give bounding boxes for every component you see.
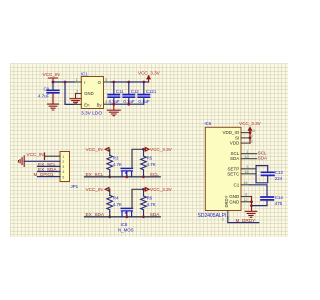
transistor Q1 N-MOS	[121, 168, 132, 176]
wire JP1 pin1	[45, 155, 60, 157]
capacitor C14	[261, 195, 283, 206]
svg-text:C14: C14	[275, 195, 284, 200]
svg-text:SDA: SDA	[258, 156, 267, 161]
svg-text:4: 4	[62, 170, 64, 174]
svg-text:4.7uF: 4.7uF	[38, 94, 50, 99]
svg-text:R6: R6	[147, 195, 153, 200]
resistor R5	[141, 149, 156, 170]
wire GND rail	[251, 197, 253, 212]
RTC IC6 box	[198, 121, 242, 219]
svg-text:DRDY: DRDY	[224, 195, 229, 207]
pin 4 stub BYP	[104, 103, 111, 105]
junction at EN branch	[64, 81, 67, 84]
wire R5 to SCL line	[143, 171, 145, 177]
svg-text:SETC: SETC	[227, 171, 240, 176]
svg-text:SDA: SDA	[230, 156, 239, 161]
ground at LDO pin 2	[70, 94, 81, 104]
junction R5 bottom	[142, 175, 145, 178]
power port VCC_3.3V (SDA shifter)	[145, 187, 172, 192]
svg-text:1: 1	[62, 155, 64, 159]
ground under caps	[107, 104, 120, 116]
pin stub DRDY 3	[227, 211, 229, 218]
wire VCC_IN to R4	[108, 189, 110, 195]
svg-text:C1: C1	[234, 182, 240, 187]
svg-text:5: 5	[247, 165, 249, 169]
svg-text:16: 16	[244, 181, 248, 185]
power port VCC_3.3V (RTC)	[239, 121, 262, 131]
svg-text:VCC_3.3V: VCC_3.3V	[150, 147, 173, 152]
svg-text:VCC_IN: VCC_IN	[43, 72, 60, 77]
wire EX_SCL line	[85, 176, 161, 178]
svg-text:VDD_IO: VDD_IO	[223, 130, 240, 135]
svg-text:VCC_3.3V: VCC_3.3V	[150, 187, 173, 192]
junction caps gnd	[112, 103, 115, 106]
connector JP1 box	[60, 152, 79, 190]
pin 2 stub	[76, 93, 82, 95]
wire VCC_IN to R3	[108, 149, 110, 155]
junction SI	[249, 137, 252, 140]
svg-text:3.3V LDO: 3.3V LDO	[81, 111, 102, 117]
pin stub GND 9	[241, 196, 252, 198]
capacitor C13	[262, 170, 284, 181]
svg-text:C13: C13	[275, 170, 284, 175]
svg-text:R5: R5	[147, 155, 153, 160]
power port VCC_IN (SDA shifter)	[86, 187, 109, 192]
junction R6 bottom	[142, 215, 145, 218]
svg-text:4.7K: 4.7K	[147, 202, 156, 207]
svg-text:5: 5	[62, 175, 64, 179]
svg-text:15: 15	[245, 170, 249, 174]
svg-text:R4: R4	[113, 195, 119, 200]
svg-text:GND: GND	[229, 199, 240, 204]
junction C121 top	[142, 81, 145, 84]
svg-text:VCC_IN: VCC_IN	[27, 152, 44, 157]
pin stub VDD_IO 13	[241, 132, 250, 134]
pin stub SCL 1	[241, 153, 257, 155]
wire caps bottom rail	[111, 103, 144, 105]
svg-text:0.1uF: 0.1uF	[138, 99, 150, 104]
capacitor C121	[138, 82, 157, 104]
pin stub SDA 10	[241, 158, 257, 160]
wire EN branch	[65, 82, 74, 104]
svg-text:GND: GND	[229, 194, 240, 199]
wire 3.3V output rail	[111, 81, 148, 83]
junction C11 top	[112, 81, 115, 84]
svg-text:En: En	[84, 102, 90, 107]
junction GND12	[250, 200, 253, 203]
pin stub GND 12	[241, 201, 252, 203]
svg-text:VCC_3.3V: VCC_3.3V	[239, 121, 262, 126]
junction C12 top	[127, 81, 130, 84]
svg-text:C121: C121	[146, 89, 157, 94]
capacitor C12	[123, 82, 139, 104]
capacitor C11	[108, 82, 124, 104]
svg-text:VCC_IN: VCC_IN	[86, 187, 103, 192]
resistor R6	[141, 189, 156, 210]
pin 5 stub OUT	[104, 81, 112, 83]
pin stub SETP 5	[241, 168, 256, 170]
pin stub C1 16	[241, 184, 250, 186]
svg-text:IC8: IC8	[121, 222, 128, 227]
junction C12 bottom	[127, 103, 130, 106]
junction R4	[108, 215, 111, 218]
svg-text:3: 3	[222, 218, 224, 222]
junction MOSFET bulk sda	[125, 215, 128, 218]
svg-text:VCC_3.3V: VCC_3.3V	[138, 71, 161, 76]
svg-text:IC6: IC6	[205, 121, 212, 126]
svg-text:224: 224	[275, 176, 283, 181]
power port VCC_IN (SCL shifter)	[86, 147, 109, 152]
resistor R4	[107, 195, 122, 211]
svg-text:1: 1	[76, 78, 78, 82]
ground at RTC	[245, 211, 257, 217]
sheet background	[10, 64, 288, 238]
svg-text:4.7K: 4.7K	[113, 202, 122, 207]
svg-text:10: 10	[245, 155, 249, 159]
op regulator IC1 box	[81, 71, 104, 116]
svg-text:O: O	[98, 80, 102, 85]
svg-text:4: 4	[105, 100, 107, 104]
svg-text:2: 2	[76, 89, 78, 93]
wire JP1 pin4	[38, 171, 61, 173]
pin 3 stub EN	[74, 103, 81, 105]
power port VCC_3.3V (SCL shifter)	[145, 147, 172, 152]
svg-text:R3: R3	[113, 155, 119, 160]
junction at C9 tap	[52, 81, 55, 84]
svg-text:C9: C9	[44, 87, 50, 92]
wire C13 loop	[256, 166, 268, 183]
wire R3 to SCL line	[109, 171, 111, 177]
svg-text:VDD: VDD	[230, 141, 240, 146]
svg-text:SCL: SCL	[150, 172, 160, 177]
power port VCC_IN (top-left)	[43, 72, 60, 82]
svg-text:4.7K: 4.7K	[113, 162, 122, 167]
wire R4 to SDA line	[109, 211, 111, 217]
svg-text:3: 3	[62, 165, 64, 169]
svg-text:M_DRDY: M_DRDY	[236, 218, 257, 223]
wire JP1 pin5	[38, 176, 61, 178]
pin 1 stub	[74, 81, 81, 83]
svg-text:N_MOS: N_MOS	[118, 228, 134, 233]
svg-text:C12: C12	[131, 89, 140, 94]
junction R3	[108, 175, 111, 178]
wire VCC_IN to LDO pin 1	[53, 81, 74, 83]
junction R6 top	[142, 188, 145, 191]
wire JP1 pin2	[24, 160, 60, 162]
wire DRDY	[228, 217, 259, 223]
junction VDDIO	[249, 131, 252, 134]
ground under C9	[48, 104, 59, 110]
junction R5 top	[142, 148, 145, 151]
svg-text:2: 2	[62, 160, 64, 164]
svg-text:1: 1	[247, 150, 249, 154]
wire gate to 3.3V rail	[132, 149, 145, 168]
svg-text:475: 475	[275, 201, 283, 206]
power port VCC_IN (JP1 pin1)	[27, 152, 45, 160]
wire JP1 pin3	[38, 165, 61, 167]
svg-text:SDA: SDA	[150, 212, 161, 217]
wire VDD rail	[249, 130, 251, 143]
resistor R3	[107, 155, 122, 171]
wire R6 to SDA line	[143, 211, 145, 217]
svg-text:C11: C11	[116, 89, 124, 94]
power port VCC_3.3V (caps rail)	[138, 71, 161, 83]
svg-text:2: 2	[251, 139, 253, 143]
svg-text:IC1: IC1	[81, 71, 88, 76]
pin stub VDD 2	[241, 142, 250, 144]
svg-text:I: I	[84, 80, 85, 85]
junction MOSFET bulk	[125, 175, 128, 178]
transistor Q2 N-MOS	[118, 208, 134, 232]
wire gate to 3.3V rail sda	[132, 189, 145, 208]
svg-text:12: 12	[244, 198, 248, 202]
ground sideways (JP1 pin2)	[19, 156, 25, 167]
svg-text:JP1: JP1	[71, 184, 79, 189]
capacitor C9	[38, 82, 59, 104]
svg-text:VCC_IN: VCC_IN	[86, 147, 103, 152]
pin stub SETC 15	[241, 173, 256, 175]
svg-text:4.7K: 4.7K	[147, 162, 156, 167]
svg-text:GND: GND	[84, 91, 93, 96]
svg-text:9: 9	[245, 193, 247, 197]
pin stub SI 4	[241, 137, 250, 139]
svg-text:5: 5	[105, 78, 107, 82]
wire EX_SDA line	[85, 216, 161, 218]
wire C1 to C14	[250, 185, 267, 206]
junction C14 return	[250, 204, 253, 207]
